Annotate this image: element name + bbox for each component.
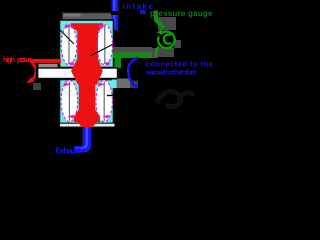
- pressure gauge (green spiral): [156, 32, 175, 56]
- lower stage red cavity: [74, 84, 100, 122]
- gauge arrow tip: [157, 29, 163, 34]
- leader dash right of lower stage: [107, 95, 115, 97]
- green link from label to gauge: [156, 11, 164, 29]
- svg-text:intake: intake: [123, 2, 154, 11]
- red curved arrow: [32, 63, 36, 79]
- lower left rotor body: [61, 80, 77, 122]
- svg-text:pressure: pressure: [17, 55, 32, 64]
- green stub down to plate: [115, 53, 122, 69]
- cyan step top-right of lower stage: [112, 80, 117, 89]
- gray steps right of lower stage: [117, 79, 130, 89]
- inlet pipe gray top (left): [37, 64, 58, 69]
- red leader line: [30, 59, 61, 63]
- red outlet funnel: [75, 118, 99, 129]
- leader line from cavity to right label: [90, 44, 115, 57]
- gray blob under arrow: [33, 83, 41, 90]
- upper stage red cavity: [71, 23, 103, 59]
- upper right rotor outline: [97, 24, 112, 65]
- upper left rotor body: [61, 25, 76, 65]
- gray bar right of upper stage: [113, 47, 153, 53]
- svg-text:pressure gauge: pressure gauge: [150, 9, 213, 18]
- upper left rotor outline: [61, 24, 76, 65]
- pipe end cap: [36, 63, 38, 80]
- gray shadow blobs behind gauge: [152, 48, 174, 57]
- exhaust pipe (blue): [91, 127, 93, 153]
- red interstage diamond port: [71, 59, 103, 85]
- lower left rotor outline: [61, 80, 77, 122]
- svg-text:Exhaust: Exhaust: [56, 147, 82, 156]
- leader line to left rotor: [55, 25, 74, 44]
- white interstage plate / pipe: [37, 68, 118, 79]
- small blue mark under intake label: [140, 10, 146, 14]
- faint watermark bottom right: [157, 91, 194, 106]
- green gauge pipe: [113, 53, 159, 59]
- lower right rotor outline: [96, 80, 112, 122]
- upper stage housing (cyan): [60, 20, 114, 68]
- lower stage housing (cyan): [60, 80, 114, 124]
- lower right rotor body: [96, 80, 112, 122]
- upper right rotor body: [97, 25, 112, 65]
- gray end cap on top of upper stage: [62, 13, 117, 21]
- blue brace pointing to stages: [128, 58, 138, 88]
- lower white foot strip: [60, 123, 116, 127]
- svg-text:high: high: [3, 57, 15, 64]
- svg-text:vacuum chamber: vacuum chamber: [146, 68, 196, 77]
- pipe (blue) intake at top: [107, 23, 119, 32]
